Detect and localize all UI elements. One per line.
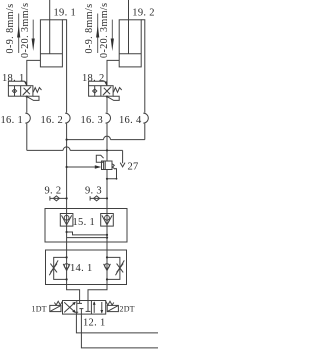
wire 15.1 to 14.1 right xyxy=(106,242,108,250)
solenoid right 12.1 xyxy=(107,305,118,311)
pilot crossover wire lower xyxy=(67,237,109,239)
wire 16.2 down through hop to 15.1 xyxy=(66,123,68,213)
pilot check valve left in 15.1 xyxy=(60,214,73,227)
svg-text:27: 27 xyxy=(128,162,139,173)
wire 15.1 to 14.1 left xyxy=(66,242,68,250)
speed label 0-20.3mm/s left xyxy=(20,2,31,58)
cylinder 19.1 cap-side port wire xyxy=(27,60,41,85)
svg-text:0-20. 3mm/s: 0-20. 3mm/s xyxy=(99,2,110,58)
valve 18.2 output wire xyxy=(106,96,108,113)
coupling 16.2 xyxy=(65,113,70,123)
wire 16.1 down to bus2 xyxy=(26,123,28,150)
bus2 wire 16.1 to relay corner with hop over 16.2 line xyxy=(27,147,123,152)
svg-text:19. 2: 19. 2 xyxy=(132,7,155,18)
coupling 16.4 xyxy=(143,113,148,123)
wire 14.1 to valve port B xyxy=(88,285,107,301)
svg-text:0-9. 8mm/s: 0-9. 8mm/s xyxy=(5,3,16,53)
svg-text:9. 3: 9. 3 xyxy=(85,186,102,197)
spring left 12.1 xyxy=(54,301,62,305)
wire 16.4 down to bus1 corner xyxy=(144,123,146,139)
wire 16.3 down to 15.1 xyxy=(106,123,108,161)
speed label 0-9.8mm/s right xyxy=(84,3,95,53)
svg-text:19. 1: 19. 1 xyxy=(54,7,77,18)
test point 9.2 xyxy=(50,196,68,201)
svg-text:16. 4: 16. 4 xyxy=(119,115,142,126)
cylinder 19.1 xyxy=(40,0,62,67)
wire left check to box bottom xyxy=(66,226,68,242)
svg-text:18. 1: 18. 1 xyxy=(2,73,25,84)
cylinder 19.2 rod-side port wire xyxy=(141,20,145,113)
coupling 16.3 xyxy=(106,113,111,123)
bus1 wire 16.4 to 16.2 with hop over 16.3 line xyxy=(66,136,145,141)
pilot crossover wire upper xyxy=(66,231,109,236)
speed label 0-9.8mm/s left xyxy=(5,3,16,53)
svg-text:0-20. 3mm/s: 0-20. 3mm/s xyxy=(20,2,31,58)
pressure switch electric symbol 27 xyxy=(120,150,125,167)
svg-text:16. 1: 16. 1 xyxy=(1,115,24,126)
velocity arrow down left xyxy=(32,20,35,51)
solenoid valve 12.1 body xyxy=(63,301,106,315)
speed label 0-20.3mm/s right xyxy=(99,2,110,58)
svg-text:14. 1: 14. 1 xyxy=(70,263,93,274)
relay spring return wire xyxy=(106,168,118,180)
one-way throttle right in 14.1 xyxy=(104,250,125,285)
manifold 14.1 xyxy=(46,250,127,285)
cylinder 19.2 cap-side port wire xyxy=(107,60,119,85)
svg-text:16. 3: 16. 3 xyxy=(81,115,104,126)
valve 18.1 output wire xyxy=(26,96,28,113)
valve 18.2 one-way throttle xyxy=(89,81,122,100)
position square parallel arrows xyxy=(93,301,103,313)
pilot check valve right in 15.1 xyxy=(101,214,114,227)
wire 14.1 to valve port A xyxy=(67,285,80,301)
wire right check to box bottom xyxy=(106,226,108,242)
svg-text:18. 2: 18. 2 xyxy=(82,73,105,84)
solenoid left 12.1 xyxy=(50,305,61,311)
position square blocked center xyxy=(75,301,91,315)
svg-text:0-9. 8mm/s: 0-9. 8mm/s xyxy=(84,3,95,53)
svg-text:2DT: 2DT xyxy=(120,305,135,314)
relay pilot wire with arrow xyxy=(66,165,102,169)
valve 18.1 one-way throttle xyxy=(8,81,41,100)
svg-text:16. 2: 16. 2 xyxy=(41,115,64,126)
cylinder 19.2 xyxy=(119,0,141,67)
svg-text:9. 2: 9. 2 xyxy=(45,186,62,197)
spring right 12.1 xyxy=(106,301,114,305)
svg-text:15. 1: 15. 1 xyxy=(73,217,96,228)
manifold 15.1 xyxy=(45,209,127,243)
T pipe wire xyxy=(81,314,158,348)
velocity arrow down right xyxy=(111,20,114,51)
coupling 16.1 xyxy=(25,113,30,123)
cylinder 19.1 rod-side port wire xyxy=(62,20,66,113)
velocity arrow up left xyxy=(17,14,20,54)
position square crossed arrows xyxy=(64,302,76,313)
svg-text:1DT: 1DT xyxy=(32,305,47,314)
test point 9.3 xyxy=(90,196,108,201)
velocity arrow up right xyxy=(96,14,99,54)
svg-text:12. 1: 12. 1 xyxy=(83,317,106,328)
pressure relay 27 body xyxy=(96,155,116,169)
one-way throttle left in 14.1 xyxy=(49,250,70,285)
P pipe wire xyxy=(76,314,158,333)
